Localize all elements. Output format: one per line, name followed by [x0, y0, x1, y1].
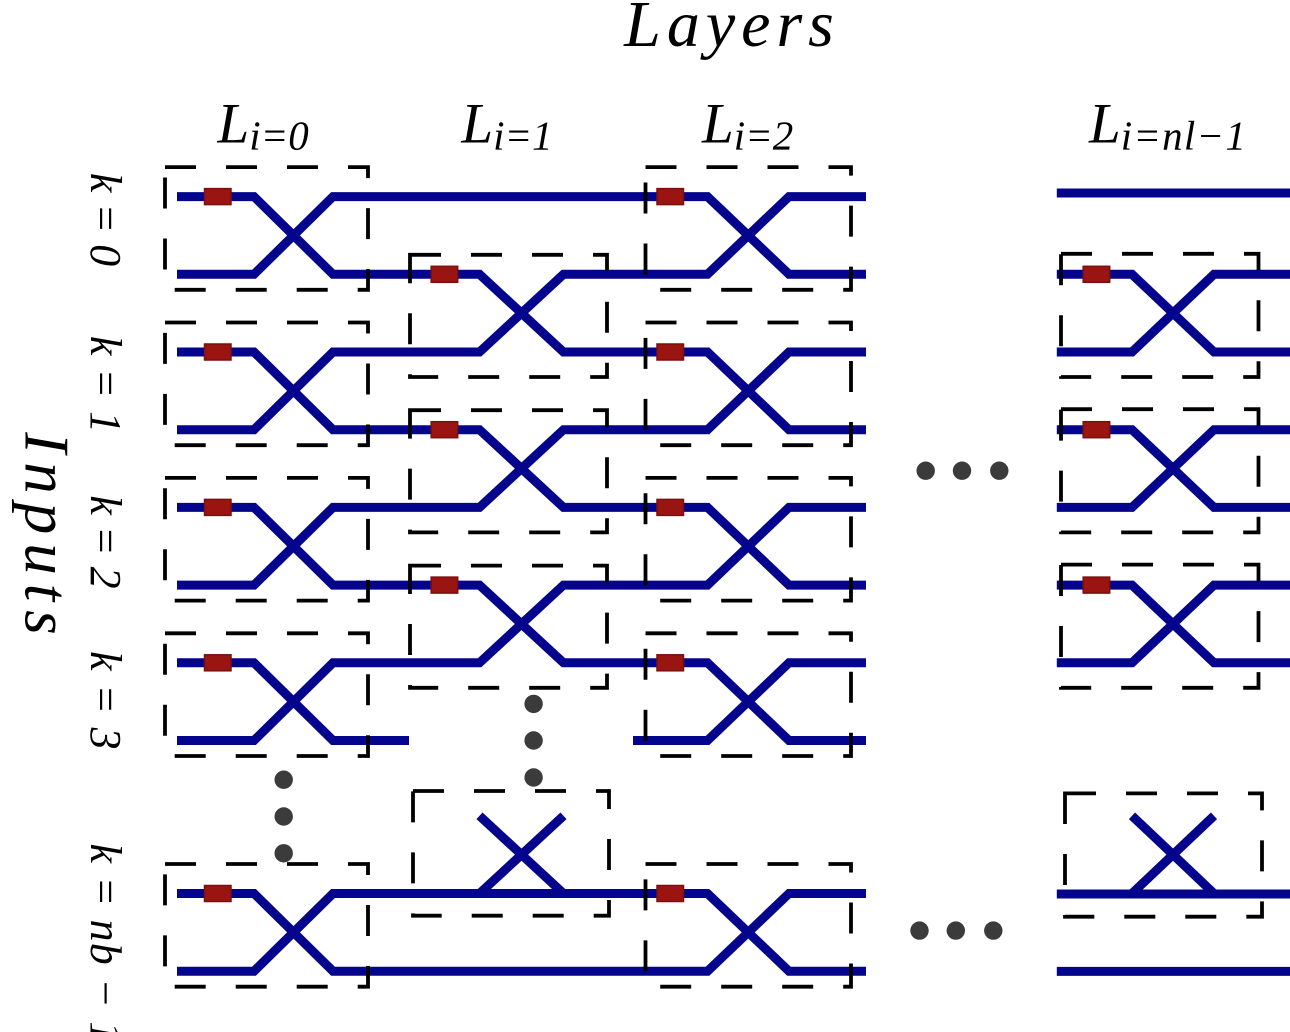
block box L1 bottom partial — [413, 791, 609, 916]
wire right column crossing k=1 bottom — [1057, 430, 1290, 508]
svg-text:k = 2: k = 2 — [81, 495, 130, 588]
wire straight line right column row 9 — [1057, 890, 1290, 899]
block box L2 k=nb-1 — [646, 864, 852, 987]
wire straight line right column row 1 — [1057, 189, 1290, 198]
block box Lnl-1 k=2 — [1061, 565, 1259, 688]
block box L2 k=0 — [646, 167, 852, 290]
svg-text:Layers: Layers — [623, 0, 840, 61]
ellipsis dots horizontal bottom — [910, 921, 928, 939]
svg-text:Inputs: Inputs — [12, 431, 82, 644]
wire waveguide path from input k=2 bottom — [177, 352, 866, 585]
ellipsis dots horizontal middle — [917, 462, 935, 480]
phase shifter L2 k=0 — [657, 189, 684, 205]
wire right column crossing k=0 top — [1057, 274, 1290, 352]
svg-text:k = nb − 1: k = nb − 1 — [81, 844, 130, 1032]
block box L0 k=nb-1 — [165, 864, 368, 987]
wire right column crossing k=1 top — [1057, 430, 1290, 508]
wire waveguide resumed stub row 8 — [633, 663, 866, 741]
block box L0 k=0 — [165, 167, 368, 290]
wire waveguide path from input k=nb-1 top — [177, 894, 866, 972]
coupler partial crossing layer L1 bottom diag 1 — [480, 816, 564, 894]
block box L2 k=2 — [646, 478, 852, 601]
phase shifter L1 k=2 — [431, 577, 458, 593]
block box Lnl-1 k=1 — [1061, 409, 1259, 532]
coupler partial crossing layer nl-1 bottom diag 1 — [1132, 816, 1214, 894]
phase shifter L1 k=0 — [431, 266, 458, 282]
wire right column crossing k=2 bottom — [1057, 585, 1290, 663]
phase shifter Lnl-1 k=2 — [1083, 577, 1110, 593]
block box L1 k=1 — [410, 410, 607, 532]
block box L0 k=2 — [165, 478, 368, 601]
phase shifter L0 k=1 — [205, 344, 232, 360]
wire waveguide path from input k=nb-1 bottom — [177, 894, 866, 972]
phase shifter L0 k=3 — [205, 655, 232, 671]
phase shifter L2 k=nb-1 — [657, 886, 684, 902]
block box Lnl-1 k=0 — [1061, 254, 1259, 377]
ellipsis dots vertical column L1 — [524, 695, 542, 713]
block box Lnl-1 bottom partial — [1065, 793, 1262, 916]
phase shifter L0 k=0 — [205, 189, 232, 205]
block box L0 k=1 — [165, 323, 368, 446]
ellipsis dots vertical column L0 — [275, 771, 293, 789]
wire waveguide path from input k=0 bottom — [177, 197, 866, 275]
svg-text:k = 0: k = 0 — [81, 173, 130, 266]
block box L2 k=3 — [646, 633, 852, 756]
wire waveguide path from input k=0 top — [177, 197, 866, 430]
wire straight line right column row 10 — [1057, 967, 1290, 976]
wire right column crossing k=2 top — [1057, 585, 1290, 663]
wire right column crossing k=0 bottom — [1057, 274, 1290, 352]
phase shifter L0 k=2 — [205, 499, 232, 515]
coupler partial crossing layer L1 bottom diag 2 — [480, 816, 564, 894]
phase shifter L0 k=nb-1 — [205, 886, 232, 902]
wire waveguide path from input k=3 top — [177, 663, 409, 741]
block box L1 k=2 — [410, 566, 607, 688]
block box L2 k=1 — [646, 323, 852, 446]
phase shifter L2 k=3 — [657, 655, 684, 671]
coupler partial crossing layer nl-1 bottom diag 2 — [1132, 816, 1214, 894]
svg-text:k = 3: k = 3 — [81, 651, 130, 751]
phase shifter L1 k=1 — [431, 422, 458, 438]
phase shifter Lnl-1 k=0 — [1083, 266, 1110, 282]
block box L1 k=0 — [410, 255, 607, 377]
wire waveguide path from input k=1 top — [177, 352, 866, 585]
wire waveguide path from input k=3 bottom — [177, 507, 866, 740]
phase shifter L2 k=2 — [657, 499, 684, 515]
wire waveguide path from input k=2 top — [177, 507, 866, 740]
svg-text:k = 1: k = 1 — [81, 336, 130, 434]
phase shifter L2 k=1 — [657, 344, 684, 360]
phase shifter Lnl-1 k=1 — [1083, 422, 1110, 438]
wire waveguide path from input k=1 bottom — [177, 197, 866, 430]
block box L0 k=3 — [165, 633, 368, 756]
